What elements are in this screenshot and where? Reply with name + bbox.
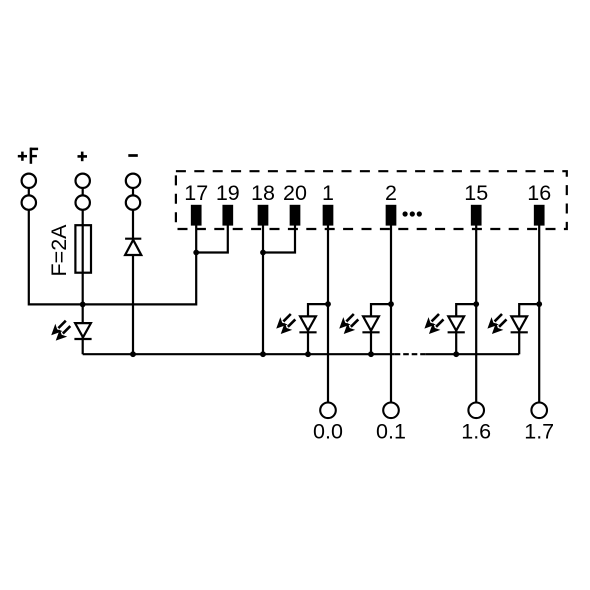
svg-text:0.1: 0.1 (376, 419, 406, 443)
svg-text:0.0: 0.0 (313, 419, 343, 443)
svg-text:20: 20 (283, 181, 307, 205)
svg-text:1: 1 (322, 181, 334, 205)
svg-text:2: 2 (385, 181, 397, 205)
svg-text:1.6: 1.6 (461, 419, 491, 443)
svg-text:19: 19 (216, 181, 240, 205)
svg-text:1.7: 1.7 (524, 419, 554, 443)
svg-text:17: 17 (184, 181, 208, 205)
svg-text:18: 18 (251, 181, 275, 205)
svg-text:16: 16 (527, 181, 551, 205)
svg-text:15: 15 (464, 181, 488, 205)
svg-text:F=2A: F=2A (47, 224, 71, 277)
